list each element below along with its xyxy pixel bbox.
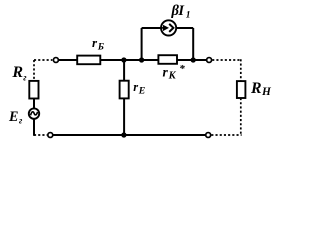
resistor R_H (load) [237,81,246,98]
wire current source loop left vertical [141,28,143,60]
wire bottom main [53,134,206,136]
terminal input top (open circle) [53,58,58,63]
terminal output bottom (open circle) [206,133,211,138]
terminal input bottom (open circle) [48,133,53,138]
svg-text:E: E [138,86,146,97]
wire load branch dashed lower [240,98,242,136]
node current-source left [139,57,144,62]
resistor R_g (generator internal) [29,81,38,99]
node current-source right [191,57,196,62]
current source U1 beta*I1 circle [161,20,176,35]
label r_E [133,80,146,96]
node base-emitter junction [121,57,126,62]
wire top middle [100,59,158,61]
svg-text:R: R [250,80,262,97]
current source arrow head filled [163,25,169,31]
wire bottom dashed right segment [211,134,241,136]
wire bottom dashed left segment [34,134,47,136]
label r_B [92,35,104,52]
wire top dashed left segment [34,59,52,61]
svg-text:г: г [23,72,27,82]
svg-text:I: I [177,3,185,19]
label R_g [11,64,27,82]
wire middle branch lower [123,98,125,135]
wire current source loop top left [142,27,162,29]
wire top right of r_K [177,59,206,61]
svg-text:r: r [133,80,138,94]
svg-text:г: г [19,116,23,126]
wire load branch dashed upper [240,59,242,81]
wire current source loop right vertical [192,28,194,60]
svg-text:E: E [8,109,18,125]
current source chevron [169,24,173,32]
label R_H [250,80,272,98]
node emitter bottom junction [121,132,126,137]
svg-text:R: R [11,64,23,81]
svg-text:К: К [168,71,177,82]
svg-text:1: 1 [186,10,191,20]
svg-text:*: * [179,63,185,75]
current source arrow shaft [161,27,163,29]
label beta I1 [171,3,191,20]
wire middle branch upper [123,60,125,81]
AC source E_g circle [29,108,39,118]
resistor r_K* (collector) [158,55,177,64]
svg-text:r: r [163,65,169,80]
wire R_g to E_g [33,99,35,109]
label E_g [8,109,23,126]
wire top dashed right segment [212,59,241,61]
wire E_g to bottom corner [33,119,35,136]
wire top to r_B [59,59,78,61]
resistor r_E (emitter) [120,81,129,99]
svg-text:Н: Н [261,86,272,98]
svg-text:Б: Б [97,41,104,52]
label r_K* [163,63,186,81]
AC source sine wave [31,112,38,116]
terminal output top (open circle) [207,58,212,63]
wire current source loop top right [176,27,193,29]
wire source branch dashed upper [33,60,35,81]
resistor r_B (base) [77,56,100,65]
